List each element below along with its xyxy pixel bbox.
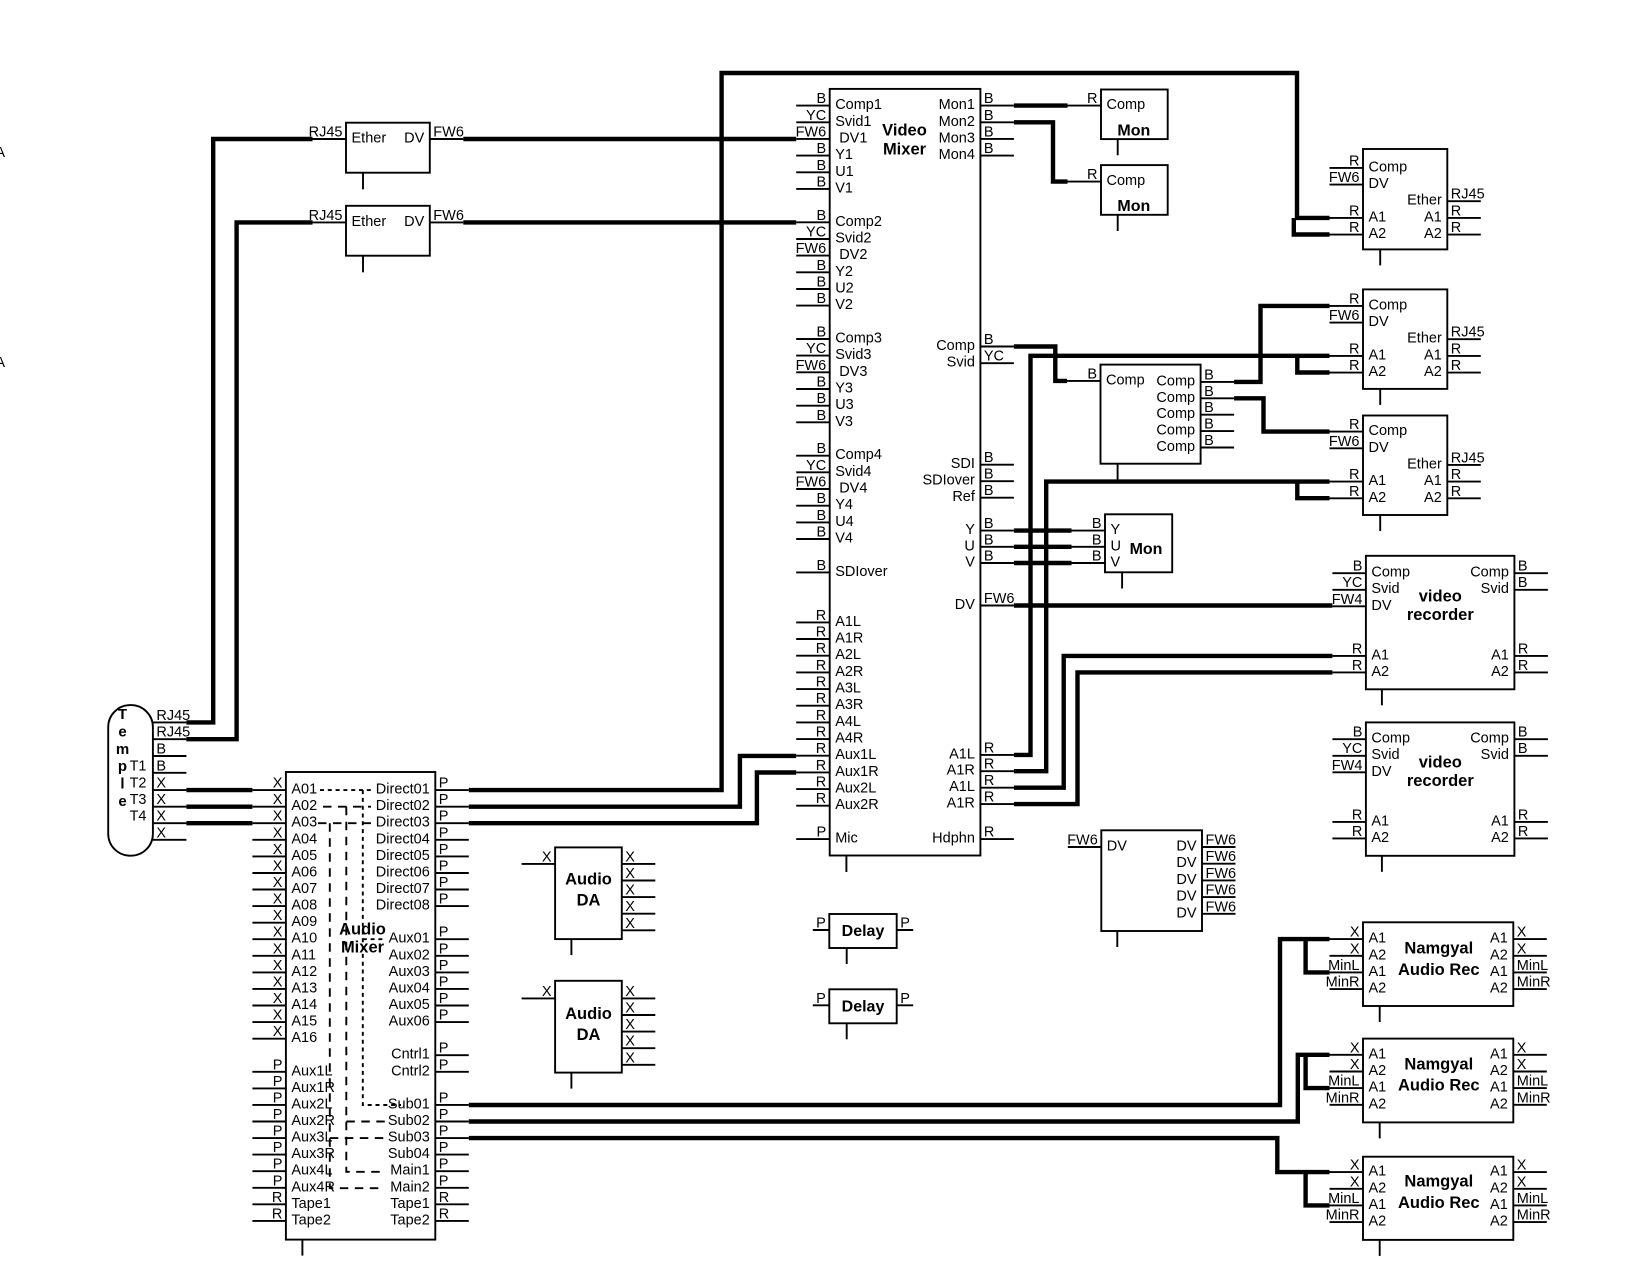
port Temple X (X)	[153, 792, 187, 808]
svg-text:R: R	[1087, 167, 1097, 183]
svg-text:R: R	[816, 725, 826, 741]
wire CompDist out2 to camcorder3 Comp	[1234, 398, 1329, 431]
svg-text:A2: A2	[1369, 981, 1387, 997]
svg-text:B: B	[1092, 532, 1102, 548]
port video recorder 2 A2 (R)	[1332, 824, 1389, 846]
port Audio DA 1 X (X)	[522, 849, 556, 865]
svg-text:A08: A08	[291, 898, 317, 914]
connector stub Audio DA 2	[570, 1073, 572, 1089]
svg-text:P: P	[439, 1157, 449, 1173]
svg-text:P: P	[439, 809, 449, 825]
svg-text:B: B	[984, 91, 994, 107]
svg-text:Mon3: Mon3	[939, 130, 975, 146]
port camcorder 1 A1 (R)	[1424, 203, 1481, 225]
dashed internal wire A01 down to Sub01	[363, 790, 401, 1105]
svg-text:Audio: Audio	[565, 1005, 612, 1023]
port Audio DA 2 X (X)	[622, 1034, 656, 1050]
svg-text:V2: V2	[835, 297, 853, 313]
port VideoMixer DV (FW6)	[955, 591, 1015, 613]
port CompDist Comp (B)	[1156, 367, 1234, 389]
port DVDist DV (FW6)	[1176, 849, 1236, 871]
svg-text:B: B	[817, 491, 827, 507]
port VideoMixer SDI (B)	[951, 450, 1014, 472]
svg-text:Comp1: Comp1	[835, 97, 882, 113]
svg-text:recorder: recorder	[1407, 772, 1475, 790]
svg-text:B: B	[1353, 725, 1363, 741]
svg-text:A1: A1	[1490, 1197, 1508, 1213]
svg-text:B: B	[817, 141, 827, 157]
svg-text:P: P	[439, 958, 449, 974]
port YUVMon V (B)	[1072, 549, 1121, 571]
port AudioMixer Direct08 (P)	[376, 892, 469, 914]
svg-text:YC: YC	[806, 108, 826, 124]
svg-text:FW6: FW6	[796, 241, 827, 257]
svg-text:Direct06: Direct06	[376, 865, 430, 881]
svg-text:Aux3L: Aux3L	[291, 1130, 332, 1146]
svg-text:B: B	[817, 208, 827, 224]
port camcorder 1 A1 (R)	[1330, 203, 1387, 225]
port YUVMon Y (B)	[1072, 516, 1121, 538]
port AudioMixer A13 (X)	[252, 974, 317, 996]
svg-text:Mon: Mon	[1117, 198, 1150, 215]
port video recorder 1 A1 (R)	[1491, 641, 1548, 663]
svg-text:X: X	[625, 916, 635, 932]
port AudioMixer A15 (X)	[252, 1008, 317, 1030]
svg-text:A2: A2	[1490, 981, 1508, 997]
svg-text:P: P	[273, 1090, 283, 1106]
svg-text:Direct03: Direct03	[376, 815, 430, 831]
svg-text:A3R: A3R	[835, 697, 863, 713]
svg-text:P: P	[439, 941, 449, 957]
svg-text:FW6: FW6	[1329, 434, 1360, 450]
svg-text:T2: T2	[130, 776, 147, 792]
svg-text:FW6: FW6	[433, 208, 464, 224]
svg-text:DV2: DV2	[839, 247, 867, 263]
box Namgyal Audio Rec 2	[1363, 1039, 1513, 1123]
svg-text:R: R	[984, 790, 994, 806]
port VideoMixer A4R (R)	[796, 725, 863, 747]
svg-text:Mon1: Mon1	[939, 97, 975, 113]
svg-text:SDIover: SDIover	[835, 564, 888, 580]
svg-text:DV3: DV3	[839, 364, 867, 380]
port video recorder 1 A2 (R)	[1491, 658, 1548, 680]
svg-text:B: B	[817, 258, 827, 274]
svg-text:T3: T3	[130, 792, 147, 808]
svg-text:A2: A2	[1369, 226, 1387, 242]
port AudioMixer A10 (X)	[252, 925, 317, 947]
svg-text:B: B	[1092, 516, 1102, 532]
box YUV monitor	[1105, 514, 1172, 572]
svg-text:Comp: Comp	[1156, 373, 1195, 389]
svg-text:DV4: DV4	[839, 481, 867, 497]
port VideoMixer V1 (B)	[796, 174, 853, 196]
port VideoMixer Svid1 (YC)	[796, 108, 871, 130]
svg-text:U2: U2	[835, 281, 854, 297]
svg-text:Audio: Audio	[565, 870, 612, 888]
port VideoMixer U (B)	[964, 532, 1013, 554]
svg-text:FW6: FW6	[796, 475, 827, 491]
svg-text:B: B	[817, 275, 827, 291]
svg-text:FW6: FW6	[796, 358, 827, 374]
svg-text:Mon4: Mon4	[939, 147, 975, 163]
port VideoMixer A1L (R)	[949, 773, 1014, 795]
port AudioMixer Aux01 (P)	[389, 925, 469, 947]
svg-text:Aux3R: Aux3R	[291, 1146, 335, 1162]
port Namgyal Audio Rec 1 A1 (X)	[1330, 925, 1387, 947]
port video recorder 2 Svid (B)	[1481, 741, 1548, 763]
port Namgyal Audio Rec 2 A2 (X)	[1330, 1057, 1387, 1079]
svg-text:video: video	[1419, 587, 1462, 605]
wire AudioMixer Sub02 to Namgyal 2 A1	[469, 1055, 1330, 1122]
svg-text:Comp: Comp	[1107, 97, 1146, 113]
port VideoMixer U4 (B)	[796, 508, 854, 530]
svg-text:FW4: FW4	[1332, 592, 1363, 608]
port VideoMixer Svid3 (YC)	[796, 341, 871, 363]
svg-text:YC: YC	[806, 341, 826, 357]
box camcorder 2	[1363, 289, 1447, 389]
svg-text:R: R	[272, 1206, 282, 1222]
port YUVMon U (B)	[1072, 532, 1121, 554]
svg-text:DV1: DV1	[839, 130, 867, 146]
svg-text:MinR: MinR	[1326, 975, 1360, 991]
port Namgyal Audio Rec 3 A2 (X)	[1490, 1174, 1547, 1196]
port video recorder 1 A2 (R)	[1332, 658, 1389, 680]
svg-text:A2: A2	[1369, 1063, 1387, 1079]
svg-text:A1: A1	[1369, 473, 1387, 489]
port AudioMixer Aux4L (P)	[252, 1157, 332, 1179]
port VideoMixer A3R (R)	[796, 691, 863, 713]
svg-text:X: X	[1350, 1174, 1360, 1190]
port video recorder 2 A1 (R)	[1332, 807, 1389, 829]
svg-text:A1R: A1R	[835, 631, 863, 647]
svg-text:X: X	[1350, 1040, 1360, 1056]
connector stub Comp monitor 2	[1117, 215, 1119, 231]
svg-text:FW6: FW6	[1329, 170, 1360, 186]
svg-text:B: B	[1204, 417, 1214, 433]
port video recorder 2 DV (FW4)	[1332, 758, 1392, 780]
wire branch Namgyal 1 MinL	[1306, 939, 1330, 972]
wire VideoMixer Comp to Comp distribution amp	[1014, 347, 1067, 381]
svg-text:Comp: Comp	[1470, 565, 1509, 581]
svg-text:Comp: Comp	[1156, 390, 1195, 406]
port CompDist Comp (B)	[1156, 417, 1234, 439]
port Ether-DV converter 1 DV (FW6)	[404, 125, 464, 147]
svg-text:X: X	[273, 792, 283, 808]
connector stub Ether-DV converter 1	[362, 173, 364, 190]
svg-text:Direct04: Direct04	[376, 831, 430, 847]
wire Temple T2 to AudioMixer A01	[186, 788, 252, 792]
svg-text:FW4: FW4	[1332, 758, 1363, 774]
svg-text:Ether: Ether	[352, 214, 387, 230]
svg-text:A1: A1	[1369, 1046, 1387, 1062]
port VideoMixer V2 (B)	[796, 291, 853, 313]
connector stub video recorder 2	[1381, 856, 1383, 872]
svg-text:A1: A1	[1491, 813, 1509, 829]
port VideoMixer A1R (R)	[796, 625, 863, 647]
svg-text:A2: A2	[1424, 364, 1442, 380]
svg-text:MinL: MinL	[1328, 1074, 1359, 1090]
port Temple X (X)	[153, 825, 187, 841]
port VideoMixer Mon3 (B)	[939, 124, 1014, 146]
port DVDist DV (FW6)	[1067, 833, 1127, 855]
port camcorder 2 Ether (RJ45)	[1407, 325, 1485, 347]
port Ether-DV converter 2 Ether (RJ45)	[309, 208, 387, 230]
svg-text:Ether: Ether	[1407, 193, 1442, 209]
svg-text:U: U	[964, 538, 974, 554]
port VideoMixer V (B)	[965, 549, 1014, 571]
svg-text:Ether: Ether	[1407, 456, 1442, 472]
port camcorder 3 A1 (R)	[1424, 467, 1481, 489]
wire Temple RJ45-2 to Ether2 RJ45	[186, 222, 312, 739]
port video recorder 2 Svid (YC)	[1332, 741, 1399, 763]
port AudioMixer A06 (X)	[252, 859, 317, 881]
port Audio DA 2 X (X)	[622, 984, 656, 1000]
port camcorder 1 Ether (RJ45)	[1407, 187, 1485, 209]
port camcorder 2 A2 (R)	[1330, 358, 1387, 380]
svg-text:X: X	[1517, 941, 1527, 957]
svg-text:A1: A1	[1490, 1080, 1508, 1096]
port AudioMixer Aux2R (P)	[252, 1107, 335, 1129]
svg-text:Tape1: Tape1	[291, 1196, 331, 1212]
svg-text:P: P	[816, 991, 826, 1007]
port AudioMixer Aux06 (P)	[389, 1008, 469, 1030]
svg-text:DV: DV	[955, 597, 975, 613]
svg-text:X: X	[273, 974, 283, 990]
port Namgyal Audio Rec 2 A1 (X)	[1490, 1040, 1547, 1062]
svg-text:R: R	[816, 775, 826, 791]
port VideoMixer A1L (R)	[949, 740, 1014, 762]
svg-text:Audio Rec: Audio Rec	[1398, 1194, 1480, 1212]
svg-text:A: A	[0, 145, 5, 161]
svg-text:A2: A2	[1490, 947, 1508, 963]
svg-text:X: X	[625, 1034, 635, 1050]
box video recorder 1	[1366, 556, 1515, 690]
svg-text:B: B	[1518, 725, 1528, 741]
svg-text:X: X	[273, 1008, 283, 1024]
svg-text:A1: A1	[1424, 209, 1442, 225]
svg-text:FW6: FW6	[1206, 866, 1237, 882]
port Temple B (B)	[153, 758, 187, 774]
svg-text:R: R	[816, 641, 826, 657]
svg-text:P: P	[439, 892, 449, 908]
svg-text:R: R	[816, 625, 826, 641]
svg-text:R: R	[1451, 484, 1461, 500]
svg-text:DV: DV	[1176, 872, 1196, 888]
svg-text:R: R	[1349, 291, 1359, 307]
svg-text:FW6: FW6	[1067, 833, 1098, 849]
port AudioMixer Direct05 (P)	[376, 842, 469, 864]
box Namgyal Audio Rec 1	[1363, 922, 1513, 1006]
svg-text:RJ45: RJ45	[156, 725, 190, 741]
port AudioMixer A02 (X)	[252, 792, 317, 814]
svg-text:DV: DV	[404, 214, 424, 230]
port Delay 1 P (P)	[897, 916, 914, 932]
wire VideoMixer A1R-2 out to video recorder 1 A2	[1014, 672, 1333, 804]
svg-text:p: p	[118, 758, 127, 775]
port VideoMixer Comp3 (B)	[796, 325, 882, 347]
svg-text:Tape2: Tape2	[390, 1212, 430, 1228]
svg-text:B: B	[817, 525, 827, 541]
svg-text:Mixer: Mixer	[883, 140, 927, 158]
svg-text:A13: A13	[291, 980, 317, 996]
svg-text:R: R	[1349, 358, 1359, 374]
svg-text:Comp: Comp	[1156, 423, 1195, 439]
svg-text:YC: YC	[1342, 741, 1362, 757]
svg-text:B: B	[1518, 559, 1528, 575]
port Namgyal Audio Rec 1 A2 (MinR)	[1326, 975, 1387, 997]
svg-text:R: R	[984, 825, 994, 841]
svg-text:X: X	[273, 859, 283, 875]
svg-text:B: B	[817, 325, 827, 341]
port AudioMixer Aux03 (P)	[389, 958, 469, 980]
port AudioMixer A09 (X)	[252, 908, 317, 930]
port Audio DA 1 X (X)	[622, 899, 656, 915]
svg-text:Comp2: Comp2	[835, 214, 882, 230]
svg-text:Ether: Ether	[352, 131, 387, 147]
svg-text:R: R	[1352, 824, 1362, 840]
svg-text:A4L: A4L	[835, 714, 861, 730]
svg-text:Hdphn: Hdphn	[932, 831, 975, 847]
connector stub Namgyal Audio Rec 3	[1379, 1240, 1381, 1256]
svg-text:R: R	[816, 741, 826, 757]
port AudioMixer Aux3R (P)	[252, 1140, 335, 1162]
svg-text:Comp: Comp	[936, 338, 975, 354]
svg-text:X: X	[542, 849, 552, 865]
port Namgyal Audio Rec 3 A2 (MinR)	[1326, 1208, 1387, 1230]
svg-text:R: R	[1451, 341, 1461, 357]
port Delay 2 P (P)	[813, 991, 830, 1007]
svg-text:A1: A1	[1369, 1197, 1387, 1213]
svg-text:l: l	[120, 776, 124, 793]
svg-text:DV: DV	[1369, 314, 1389, 330]
svg-text:P: P	[439, 991, 449, 1007]
dashed internal wire A01 across	[320, 789, 371, 791]
connector stub Namgyal Audio Rec 1	[1379, 1006, 1381, 1022]
svg-text:RJ45: RJ45	[309, 125, 343, 141]
dashed internal wire A03 across	[318, 822, 371, 824]
port VideoMixer Comp (B)	[936, 332, 1014, 354]
svg-text:R: R	[1352, 658, 1362, 674]
svg-text:A2: A2	[1369, 1180, 1387, 1196]
svg-text:RJ45: RJ45	[309, 208, 343, 224]
svg-text:B: B	[817, 508, 827, 524]
svg-text:R: R	[816, 691, 826, 707]
svg-text:X: X	[1350, 925, 1360, 941]
dashed internal wire Aux01 tap	[363, 938, 385, 940]
port AudioMixer Direct02 (P)	[376, 792, 469, 814]
port VideoMixer V3 (B)	[796, 408, 853, 430]
port CompDist Comp (B)	[1156, 433, 1234, 455]
svg-text:FW6: FW6	[1206, 849, 1237, 865]
svg-text:P: P	[900, 991, 910, 1007]
svg-text:Direct01: Direct01	[376, 782, 430, 798]
box Temple node	[108, 705, 153, 856]
svg-text:Svid3: Svid3	[835, 347, 871, 363]
port AudioMixer A12 (X)	[252, 958, 317, 980]
wire AudioMixer Sub01 to Namgyal 1 A1	[469, 939, 1330, 1105]
port camcorder 3 A2 (R)	[1330, 484, 1387, 506]
svg-text:Cntrl2: Cntrl2	[391, 1063, 430, 1079]
svg-text:Comp: Comp	[1369, 423, 1408, 439]
port AudioMixer Sub02 (P)	[388, 1107, 469, 1129]
port AudioMixer Aux1R (P)	[252, 1074, 335, 1096]
svg-text:R: R	[1518, 658, 1528, 674]
port VideoMixer A2L (R)	[796, 641, 861, 663]
svg-text:Svid: Svid	[947, 355, 975, 371]
port camcorder 3 Ether (RJ45)	[1407, 450, 1485, 472]
svg-text:X: X	[1517, 1040, 1527, 1056]
svg-text:Video: Video	[882, 122, 927, 140]
svg-text:A2: A2	[1424, 226, 1442, 242]
port AudioMixer Aux3L (P)	[252, 1124, 332, 1146]
svg-text:DV: DV	[404, 131, 424, 147]
svg-text:R: R	[1349, 467, 1359, 483]
svg-text:R: R	[1451, 467, 1461, 483]
svg-text:R: R	[1349, 484, 1359, 500]
svg-text:B: B	[156, 742, 166, 758]
svg-text:X: X	[625, 883, 635, 899]
wire VideoMixer Y to YUV monitor Y	[1014, 528, 1072, 532]
port Audio DA 2 X (X)	[622, 1001, 656, 1017]
connector stub Audio Mixer	[301, 1240, 303, 1256]
dashed internal wire Sub03 tap	[330, 1137, 387, 1139]
svg-text:R: R	[816, 675, 826, 691]
port VideoMixer A1L (R)	[796, 608, 861, 630]
port Audio DA 2 X (X)	[522, 984, 556, 1000]
svg-text:Y: Y	[1111, 522, 1121, 538]
port Namgyal Audio Rec 1 A2 (MinR)	[1490, 975, 1551, 997]
port Namgyal Audio Rec 3 A1 (X)	[1490, 1158, 1547, 1180]
svg-text:Comp: Comp	[1107, 173, 1146, 189]
svg-text:Aux4R: Aux4R	[291, 1179, 335, 1195]
svg-text:R: R	[1451, 203, 1461, 219]
svg-text:B: B	[817, 441, 827, 457]
svg-text:FW6: FW6	[1206, 883, 1237, 899]
svg-text:X: X	[1517, 1057, 1527, 1073]
svg-text:Y4: Y4	[835, 497, 853, 513]
svg-text:A2: A2	[1369, 364, 1387, 380]
svg-text:Svid: Svid	[1371, 581, 1399, 597]
svg-text:P: P	[439, 776, 449, 792]
svg-text:FW6: FW6	[796, 124, 827, 140]
connector stub Delay 1	[846, 948, 848, 964]
svg-text:X: X	[625, 866, 635, 882]
port camcorder 2 A2 (R)	[1424, 358, 1481, 380]
svg-text:Aux01: Aux01	[389, 931, 430, 947]
svg-text:Comp3: Comp3	[835, 331, 882, 347]
port VideoMixer DV2 (FW6)	[796, 241, 868, 263]
port AudioMixer Aux4R (P)	[252, 1173, 335, 1195]
port DVDist DV (FW6)	[1176, 833, 1236, 855]
svg-text:P: P	[439, 1057, 449, 1073]
port Comp monitor 2 Comp (R)	[1068, 167, 1146, 189]
port AudioMixer Direct03 (P)	[376, 809, 469, 831]
svg-text:Y1: Y1	[835, 147, 853, 163]
svg-text:DA: DA	[577, 892, 601, 910]
svg-text:V1: V1	[835, 180, 853, 196]
port Ether-DV converter 2 DV (FW6)	[404, 208, 464, 230]
port VideoMixer Comp1 (B)	[796, 91, 882, 113]
svg-text:Svid1: Svid1	[835, 114, 871, 130]
svg-text:B: B	[1353, 559, 1363, 575]
port VideoMixer Aux1L (R)	[796, 741, 876, 763]
svg-text:B: B	[1518, 575, 1528, 591]
connector stub camcorder 2	[1379, 389, 1381, 405]
wire VideoMixer A1L-2 out to video recorder 1 A1	[1014, 656, 1333, 788]
svg-text:U3: U3	[835, 397, 854, 413]
svg-text:X: X	[1517, 1174, 1527, 1190]
dashed internal wire A02 down to Sub02/Main1	[346, 807, 384, 1172]
